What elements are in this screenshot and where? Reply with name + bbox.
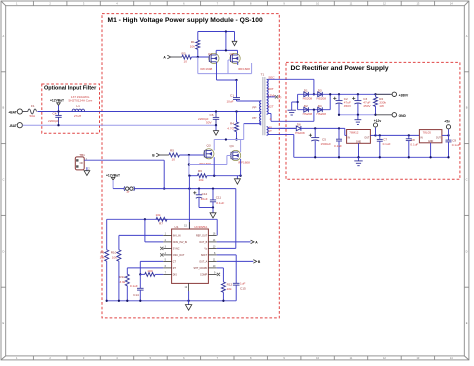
ground symbol LV bbox=[358, 157, 360, 161]
wire source rail bbox=[207, 175, 241, 177]
wire AC2 drop bbox=[313, 110, 315, 122]
wire bridge left column bbox=[297, 94, 299, 109]
svg-text:C12: C12 bbox=[202, 192, 208, 196]
svg-text:78M12: 78M12 bbox=[349, 131, 359, 135]
wire Q2 drain bbox=[237, 62, 239, 65]
svg-text:C14: C14 bbox=[133, 293, 139, 297]
pin 2 NON_INV_IN bbox=[163, 241, 171, 243]
svg-text:UC3825A: UC3825A bbox=[194, 225, 207, 229]
module box DC Rectifier and Power Supply bbox=[286, 62, 460, 179]
svg-text:D: D bbox=[466, 249, 468, 253]
wire to pin16 bbox=[216, 219, 218, 235]
svg-text:0.1uF: 0.1uF bbox=[130, 284, 138, 288]
pin 15 VIN bbox=[188, 222, 190, 229]
pin 9 COMP bbox=[208, 273, 216, 275]
wire gate node bbox=[191, 56, 209, 58]
pin 7 DIS bbox=[163, 273, 171, 275]
svg-text:10k: 10k bbox=[112, 255, 117, 259]
svg-text:RT: RT bbox=[173, 267, 177, 270]
svg-text:SHT_DOWN: SHT_DOWN bbox=[194, 267, 208, 270]
capacitor C15 1uF bbox=[233, 282, 240, 284]
capacitor C11 0.1uF bbox=[212, 189, 214, 200]
svg-text:OUT: OUT bbox=[364, 137, 370, 140]
wire C12 C11 join bbox=[199, 207, 213, 209]
junction bbox=[225, 30, 227, 32]
wire primary bottom pin bbox=[244, 123, 262, 125]
regulator U2 78M12 bbox=[347, 130, 371, 144]
svg-text:C11: C11 bbox=[216, 196, 222, 200]
tap 12Vk stub bbox=[268, 96, 275, 98]
svg-text:+5v: +5v bbox=[444, 119, 450, 123]
svg-text:HS208: HS208 bbox=[303, 97, 313, 101]
pin 6 RT bbox=[163, 267, 171, 269]
svg-text:+380V: +380V bbox=[399, 94, 409, 98]
capacitor C14 0.1uF bbox=[139, 274, 141, 288]
svg-text:+12v: +12v bbox=[374, 119, 382, 123]
wire secondary bottom AC2 bbox=[268, 113, 271, 115]
pin 14 OUT_B bbox=[208, 241, 216, 243]
svg-text:COMP: COMP bbox=[200, 274, 208, 277]
wire Q3 source bbox=[213, 157, 215, 176]
wire D6 output bbox=[301, 127, 345, 129]
wire +BAT rail bbox=[37, 111, 259, 113]
svg-text:R6: R6 bbox=[198, 169, 202, 173]
resistor R5 10 bbox=[169, 153, 180, 157]
svg-text:IN: IN bbox=[348, 137, 351, 140]
pin 1 INV_IN bbox=[163, 234, 171, 236]
wire primary top pin bbox=[237, 100, 262, 102]
svg-text:Q1: Q1 bbox=[208, 52, 212, 56]
svg-text:0.1uF: 0.1uF bbox=[334, 144, 342, 148]
wire D6 anode bbox=[280, 127, 296, 129]
svg-text:REF_OUT: REF_OUT bbox=[196, 235, 208, 238]
svg-text:4: 4 bbox=[270, 117, 272, 121]
wire center node bbox=[225, 32, 227, 51]
wire +12V rail bbox=[113, 188, 124, 190]
svg-text:D2: D2 bbox=[304, 104, 308, 108]
svg-text:C9: C9 bbox=[452, 139, 456, 143]
terminal GND bbox=[376, 114, 393, 116]
ground flag C11 bbox=[212, 208, 214, 213]
svg-text:OUT: OUT bbox=[436, 137, 442, 140]
svg-text:D1: D1 bbox=[304, 89, 308, 93]
net flag B output bbox=[253, 260, 256, 264]
capacitor C8 0.1uF bbox=[408, 134, 410, 136]
svg-text:-BAT: -BAT bbox=[9, 124, 17, 128]
svg-text:10uF: 10uF bbox=[226, 99, 233, 103]
svg-text:HS208: HS208 bbox=[303, 112, 313, 116]
svg-text:R9: R9 bbox=[100, 250, 104, 254]
wire TB1 to rail bbox=[163, 160, 165, 188]
svg-text:3.3k: 3.3k bbox=[119, 280, 125, 284]
svg-text:IRF1608: IRF1608 bbox=[238, 67, 250, 71]
svg-text:PP: PP bbox=[252, 105, 256, 109]
capacitor C9 0.1uF bbox=[448, 135, 450, 140]
svg-text:1W: 1W bbox=[379, 104, 384, 108]
svg-text:R4: R4 bbox=[230, 122, 234, 126]
resistor R1 10k bbox=[197, 32, 199, 41]
net flag A output bbox=[251, 240, 254, 244]
capacitor C12 10uF bbox=[198, 189, 200, 195]
net flag A input bbox=[167, 55, 170, 59]
junction bbox=[57, 124, 59, 126]
ground flag bbox=[215, 125, 217, 130]
capacitor C4 2200pF bbox=[58, 112, 60, 116]
svg-text:OUT_A: OUT_A bbox=[199, 261, 207, 264]
wire OUT_B to net A bbox=[217, 241, 251, 243]
svg-text:HS208: HS208 bbox=[317, 97, 327, 101]
svg-text:C15: C15 bbox=[240, 286, 246, 290]
svg-text:R7: R7 bbox=[159, 222, 163, 226]
winding secondary lower bbox=[267, 97, 269, 114]
svg-text:HS208: HS208 bbox=[317, 112, 327, 116]
wire gate loop bbox=[197, 57, 199, 74]
component TB1 bbox=[75, 157, 84, 170]
svg-text:PP: PP bbox=[252, 116, 256, 120]
svg-text:IN: IN bbox=[420, 137, 423, 140]
wire +12v rail bbox=[376, 134, 420, 136]
svg-text:Optional Input Filter: Optional Input Filter bbox=[44, 86, 97, 92]
resistor R3 10 bbox=[182, 55, 192, 59]
pin 4 OSC_OUT bbox=[163, 254, 171, 256]
terminal +5v bbox=[447, 134, 449, 136]
wire secondary top AC1 bbox=[268, 78, 314, 80]
fuse F1 bbox=[28, 109, 37, 114]
svg-text:10k: 10k bbox=[100, 255, 105, 259]
diode D2 HS208 bbox=[304, 107, 309, 112]
pin 10 SHT_DOWN bbox=[208, 267, 216, 269]
svg-text:C6: C6 bbox=[210, 113, 214, 117]
svg-text:1500uF: 1500uF bbox=[321, 142, 332, 146]
wire pin1 line bbox=[119, 234, 163, 236]
pin 13 Vc bbox=[208, 247, 216, 249]
svg-text:SOFT: SOFT bbox=[201, 254, 208, 257]
svg-text:1T: 1T bbox=[268, 129, 272, 133]
no-connect marks bbox=[160, 247, 163, 250]
wire bbox=[160, 154, 169, 156]
svg-text:50V: 50V bbox=[206, 121, 212, 125]
capacitor C7 0.1uF bbox=[379, 134, 381, 136]
svg-text:+BAT: +BAT bbox=[8, 110, 16, 114]
wire IC ground rail bbox=[107, 300, 237, 302]
svg-text:62T: 62T bbox=[268, 105, 273, 109]
svg-text:L1: L1 bbox=[76, 104, 80, 108]
svg-text:F1: F1 bbox=[31, 104, 35, 108]
capacitor C5 1500uF bbox=[314, 128, 316, 137]
resistor R11 3.3k bbox=[125, 274, 129, 286]
inductor L1 27uH bbox=[72, 109, 84, 111]
svg-text:Q4: Q4 bbox=[230, 144, 234, 148]
wire REF divider bbox=[107, 218, 218, 220]
resistor R7 10k bbox=[156, 217, 167, 221]
winding primary PP upper bbox=[260, 101, 262, 113]
svg-text:Q2: Q2 bbox=[230, 52, 234, 56]
svg-text:HS208: HS208 bbox=[295, 131, 305, 135]
wire LV ground rail bbox=[294, 156, 449, 158]
wire bridge top row bbox=[298, 93, 391, 95]
wire bbox=[22, 111, 27, 113]
wire bridge bottom row bbox=[298, 109, 331, 111]
svg-text:U1: U1 bbox=[175, 225, 179, 229]
connector J7 bbox=[126, 187, 129, 190]
transistor Q2 IRF1608 bbox=[230, 53, 240, 63]
pin 16 REF_OUT bbox=[208, 234, 216, 236]
svg-text:C1: C1 bbox=[230, 94, 234, 98]
svg-text:10uF: 10uF bbox=[201, 197, 208, 201]
svg-text:R11: R11 bbox=[119, 275, 125, 279]
winding secondary upper bbox=[267, 79, 269, 96]
wire Q4 source bbox=[240, 159, 242, 176]
svg-text:J7: J7 bbox=[126, 190, 130, 194]
wire bridge right column bbox=[329, 94, 331, 109]
svg-text:0.1uF: 0.1uF bbox=[383, 142, 391, 146]
capacitor C3 47uF 450V bbox=[357, 93, 359, 95]
pin 5 CT bbox=[163, 260, 171, 262]
resistor R2 330k 1W bbox=[374, 93, 376, 95]
pin 12 GND bbox=[188, 283, 190, 291]
wire OUT_A to net B bbox=[217, 260, 254, 262]
svg-text:78L05: 78L05 bbox=[423, 131, 432, 135]
capacitor C10 0.1uF bbox=[338, 128, 340, 139]
svg-text:E: E bbox=[3, 321, 5, 325]
svg-text:10k: 10k bbox=[190, 45, 195, 49]
winding primary PP lower bbox=[260, 113, 262, 125]
svg-text:60T: 60T bbox=[268, 87, 273, 91]
svg-text:INV_IN: INV_IN bbox=[173, 235, 181, 238]
svg-text:OUT_B: OUT_B bbox=[199, 241, 207, 244]
svg-text:NON_INV_IN: NON_INV_IN bbox=[173, 241, 188, 244]
resistor R12 100 on DIS bbox=[140, 273, 144, 275]
diode D1 HS208 bbox=[304, 92, 309, 97]
wire rail continue bbox=[135, 188, 236, 190]
capacitor C2 47uF 450V bbox=[338, 93, 340, 95]
svg-text:D: D bbox=[2, 249, 4, 253]
diode D4 HS208 bbox=[318, 107, 323, 112]
resistor R13 10k bbox=[221, 282, 225, 292]
pin 3 SYNC bbox=[163, 247, 171, 249]
svg-text:0.1uF: 0.1uF bbox=[216, 201, 224, 205]
transistor Q1 IRF1608 bbox=[209, 53, 219, 63]
svg-text:D3: D3 bbox=[318, 89, 322, 93]
svg-text:OK: OK bbox=[80, 162, 84, 165]
resistor R9 10k bbox=[105, 250, 109, 261]
svg-text:OSC_OUT: OSC_OUT bbox=[173, 254, 185, 257]
wire aux bottom bbox=[268, 134, 280, 136]
svg-text:450V: 450V bbox=[344, 104, 352, 108]
svg-text:C7: C7 bbox=[383, 137, 387, 141]
svg-text:R12: R12 bbox=[227, 282, 233, 286]
ground symbol filter caps bbox=[357, 115, 359, 120]
svg-text:10k: 10k bbox=[227, 287, 232, 291]
svg-text:GND: GND bbox=[399, 114, 407, 118]
svg-text:GND: GND bbox=[356, 140, 362, 143]
svg-text:E: E bbox=[466, 321, 468, 325]
wire pin5 CT line bbox=[140, 260, 163, 262]
svg-text:TB1: TB1 bbox=[79, 153, 85, 157]
transistor Q3 IRF1608 bbox=[204, 149, 214, 159]
svg-text:M1 - High Voltage Power supply: M1 - High Voltage Power supply Module - … bbox=[108, 17, 263, 24]
svg-text:C8: C8 bbox=[411, 138, 415, 142]
svg-text:DIS: DIS bbox=[173, 274, 177, 277]
power flag down arrow bbox=[234, 32, 236, 42]
svg-text:27uH: 27uH bbox=[74, 114, 81, 118]
resistor R4 4.7k bbox=[235, 110, 237, 112]
junction bbox=[235, 79, 237, 81]
svg-text:450V: 450V bbox=[363, 104, 371, 108]
resistor R6 10k bbox=[189, 175, 198, 177]
svg-text:100: 100 bbox=[147, 269, 152, 273]
svg-text:10k: 10k bbox=[156, 213, 161, 217]
svg-text:D6: D6 bbox=[297, 123, 301, 127]
terminal +12v bbox=[374, 134, 376, 136]
wire bbox=[171, 56, 182, 58]
wire VIN drop bbox=[188, 176, 190, 229]
wire SOFT to C15 bbox=[217, 254, 237, 256]
wire Q3 Q4 drain rail bbox=[213, 140, 215, 151]
svg-text:50A: 50A bbox=[30, 114, 36, 118]
svg-text:(x): (x) bbox=[278, 95, 282, 99]
wire Q1 source bbox=[216, 62, 218, 80]
wire SHT_DOWN to R13 bbox=[217, 267, 224, 269]
ground flag IC bbox=[188, 291, 190, 301]
pin 11 OUT_A bbox=[208, 260, 216, 262]
diode D3 HS208 bbox=[318, 92, 323, 97]
wire R8 node bbox=[188, 175, 190, 177]
wire Vc to rail bbox=[217, 247, 236, 249]
svg-text:SYNC: SYNC bbox=[173, 248, 180, 251]
svg-text:+12VBaT: +12VBaT bbox=[50, 99, 64, 103]
svg-text:A: A bbox=[466, 34, 468, 38]
svg-text:DC Rectifier and Power Supply: DC Rectifier and Power Supply bbox=[291, 65, 389, 72]
svg-text:C5: C5 bbox=[322, 137, 326, 141]
svg-text:10: 10 bbox=[184, 59, 188, 63]
svg-text:D4: D4 bbox=[318, 104, 322, 108]
diode D6 HS208 bbox=[296, 126, 301, 131]
svg-text:IRF1608: IRF1608 bbox=[200, 67, 212, 71]
wire AC1 drop bbox=[313, 79, 315, 94]
junction bbox=[57, 110, 59, 112]
module box M1 - High Voltage Power supply Module - QS-100 bbox=[102, 14, 279, 318]
svg-text:GND: GND bbox=[428, 140, 434, 143]
wire pin2 line bbox=[144, 219, 146, 242]
svg-text:B: B bbox=[466, 106, 468, 110]
svg-text:C: C bbox=[2, 178, 4, 182]
svg-text:10k: 10k bbox=[199, 178, 204, 182]
module box Optional Input Filter bbox=[42, 84, 100, 133]
svg-text:1uF: 1uF bbox=[240, 282, 245, 286]
svg-text:0.1uF: 0.1uF bbox=[452, 143, 460, 147]
transistor Q4 IRF1608 bbox=[231, 150, 241, 160]
svg-text:4.7G: 4.7G bbox=[227, 127, 234, 131]
svg-text:0.1uF: 0.1uF bbox=[410, 142, 418, 146]
svg-text:IRF1608: IRF1608 bbox=[238, 160, 250, 164]
svg-text:R1: R1 bbox=[191, 40, 195, 44]
wire primary center tap bbox=[255, 111, 261, 113]
wire divider to R9 bbox=[106, 219, 108, 250]
capacitor C6 2200pF bbox=[215, 110, 217, 112]
net flag B input bbox=[156, 153, 159, 157]
svg-text:B: B bbox=[3, 106, 5, 110]
junction bbox=[235, 138, 237, 140]
svg-text:R10: R10 bbox=[111, 250, 117, 254]
regulator U3 78L05 bbox=[419, 130, 442, 143]
svg-text:A: A bbox=[3, 34, 5, 38]
wire top rail bbox=[198, 31, 235, 33]
winding aux bbox=[267, 127, 269, 136]
wire pin6 RT line bbox=[127, 267, 163, 269]
svg-text:C: C bbox=[466, 178, 468, 182]
svg-text:R5: R5 bbox=[170, 148, 174, 152]
svg-text:10: 10 bbox=[172, 157, 176, 161]
svg-text:C4: C4 bbox=[53, 112, 57, 116]
svg-text:5H2T0124A Core: 5H2T0124A Core bbox=[69, 98, 93, 102]
wire cap bottom rail bbox=[339, 114, 376, 116]
ground flag bbox=[236, 176, 238, 179]
svg-text:CT: CT bbox=[173, 261, 177, 264]
wire gate loop B bbox=[188, 155, 190, 176]
svg-text:Q3: Q3 bbox=[207, 143, 211, 147]
svg-text:T1: T1 bbox=[261, 73, 265, 77]
terminal +380V bbox=[376, 93, 393, 95]
op-amp U1 UC3825 PWM controller bbox=[172, 229, 209, 283]
pin 8 SOFT bbox=[208, 254, 216, 256]
ground symbol bridge bbox=[292, 101, 298, 103]
resistor R10 10k bbox=[117, 250, 121, 261]
capacitor C1 10uF bbox=[236, 80, 238, 98]
wire -BAT rail bbox=[22, 124, 216, 126]
svg-text:R3: R3 bbox=[182, 52, 186, 56]
wire gate node B bbox=[179, 154, 204, 156]
svg-text:2200pF: 2200pF bbox=[48, 119, 59, 123]
wire aux top bbox=[268, 127, 296, 129]
